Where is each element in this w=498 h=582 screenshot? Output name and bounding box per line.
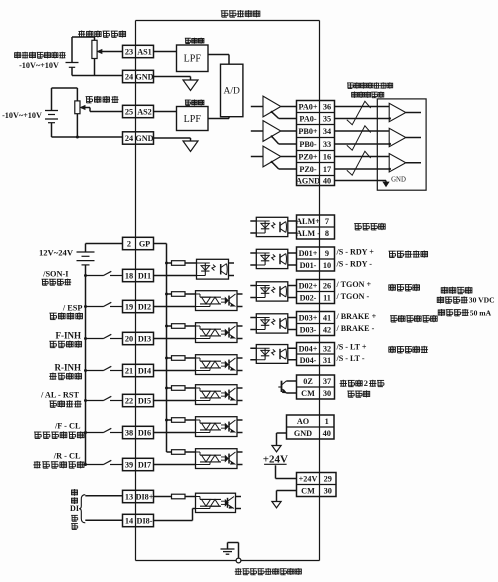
svg-text:/S - LT +: /S - LT + <box>336 343 367 352</box>
svg-text:/S - RDY +: /S - RDY + <box>336 247 375 256</box>
svg-text:D01+: D01+ <box>299 249 318 258</box>
svg-text:DI3: DI3 <box>138 335 151 344</box>
svg-text:-10V~+10V: -10V~+10V <box>19 61 59 70</box>
svg-text:2: 2 <box>127 240 131 249</box>
svg-text:41: 41 <box>323 314 331 323</box>
svg-text:25: 25 <box>125 108 133 117</box>
svg-text:42: 42 <box>323 326 331 335</box>
svg-text:/S - RDY -: /S - RDY - <box>336 259 373 268</box>
svg-text:D04-: D04- <box>300 356 317 365</box>
svg-text:/F - CL: /F - CL <box>54 422 81 431</box>
svg-text:37: 37 <box>323 377 331 386</box>
svg-text:GND: GND <box>135 134 153 143</box>
svg-text:10: 10 <box>323 261 331 270</box>
svg-text:2: 2 <box>364 379 368 388</box>
svg-text:LPF: LPF <box>184 114 202 125</box>
svg-text:0Z: 0Z <box>303 377 313 386</box>
svg-text:DI5: DI5 <box>138 397 151 406</box>
svg-text:39: 39 <box>125 461 133 470</box>
svg-text:34: 34 <box>323 127 331 136</box>
svg-text:7: 7 <box>325 217 329 226</box>
svg-text:40: 40 <box>323 429 331 438</box>
svg-text:/ ESP: / ESP <box>62 303 83 312</box>
svg-text:DI6: DI6 <box>138 429 151 438</box>
svg-text:GP: GP <box>139 240 150 249</box>
svg-text:DI7: DI7 <box>138 461 151 470</box>
svg-text:/ TGON +: / TGON + <box>336 280 372 289</box>
svg-text:24: 24 <box>125 134 133 143</box>
svg-text:D04+: D04+ <box>299 344 318 353</box>
svg-text:23: 23 <box>125 48 133 57</box>
svg-text:29: 29 <box>324 475 332 484</box>
svg-text:36: 36 <box>323 103 331 112</box>
svg-text:35: 35 <box>323 115 331 124</box>
svg-text:CM: CM <box>301 389 315 398</box>
svg-text:D01-: D01- <box>300 261 317 270</box>
svg-text:D03+: D03+ <box>299 314 318 323</box>
svg-text:DI: DI <box>70 504 79 513</box>
svg-text:/ TGON -: / TGON - <box>336 292 370 301</box>
svg-text:/ BRAKE -: / BRAKE - <box>336 324 375 333</box>
svg-text:21: 21 <box>125 367 133 376</box>
svg-text:GND: GND <box>294 429 312 438</box>
svg-text:PA0+: PA0+ <box>298 103 317 112</box>
svg-text:F-INH: F-INH <box>56 331 82 341</box>
svg-text:40: 40 <box>323 177 331 186</box>
svg-text:38: 38 <box>125 429 133 438</box>
svg-text:AS1: AS1 <box>137 48 152 57</box>
svg-text:8: 8 <box>325 229 329 238</box>
svg-text:GND: GND <box>135 73 153 82</box>
svg-text:ALM -: ALM - <box>296 229 320 238</box>
svg-text:AS2: AS2 <box>137 108 152 117</box>
svg-text:PZ0-: PZ0- <box>299 165 317 174</box>
svg-text:PB0+: PB0+ <box>298 127 318 136</box>
svg-text:18: 18 <box>125 272 133 281</box>
svg-text:14: 14 <box>125 517 133 526</box>
svg-text:20: 20 <box>125 335 133 344</box>
svg-text:24: 24 <box>125 73 133 82</box>
svg-text:32: 32 <box>323 344 331 353</box>
svg-text:/ BRAKE +: / BRAKE + <box>336 312 377 321</box>
svg-text:/ AL - RST: / AL - RST <box>40 390 80 399</box>
svg-text:/S - LT -: /S - LT - <box>336 354 365 363</box>
svg-text:GND: GND <box>391 177 406 184</box>
svg-text:DI8+: DI8+ <box>136 493 154 502</box>
svg-text:PA0-: PA0- <box>299 115 316 124</box>
svg-text:31: 31 <box>323 356 331 365</box>
svg-text:30: 30 <box>323 389 331 398</box>
svg-text:D02-: D02- <box>300 294 317 303</box>
svg-text:+24V: +24V <box>299 475 318 484</box>
svg-text:AO: AO <box>297 417 309 426</box>
svg-text:CM: CM <box>301 487 315 496</box>
svg-text:LPF: LPF <box>184 54 202 65</box>
svg-text:1: 1 <box>325 417 329 426</box>
svg-text:DI1: DI1 <box>138 272 151 281</box>
svg-text:50 mA: 50 mA <box>470 308 492 317</box>
svg-text:26: 26 <box>323 282 331 291</box>
svg-text:19: 19 <box>125 303 133 312</box>
svg-text:22: 22 <box>125 397 133 406</box>
svg-text:PB0-: PB0- <box>299 140 317 149</box>
svg-text:30: 30 <box>324 487 332 496</box>
svg-text:ALM+: ALM+ <box>296 217 320 226</box>
svg-text:/R - CL: /R - CL <box>53 452 81 461</box>
svg-text:30 VDC: 30 VDC <box>469 296 495 305</box>
svg-text:+24V: +24V <box>263 453 288 465</box>
svg-text:13: 13 <box>125 493 133 502</box>
svg-text:9: 9 <box>325 249 329 258</box>
svg-text:PZ0+: PZ0+ <box>298 153 318 162</box>
svg-text:DI8-: DI8- <box>137 517 153 526</box>
svg-text:-10V~+10V: -10V~+10V <box>2 111 42 120</box>
svg-text:DI4: DI4 <box>138 367 151 376</box>
svg-text:11: 11 <box>323 294 331 303</box>
svg-text:12V~24V: 12V~24V <box>39 248 74 258</box>
svg-text:17: 17 <box>323 165 331 174</box>
svg-text:R-INH: R-INH <box>55 363 82 373</box>
svg-text:D02+: D02+ <box>299 282 318 291</box>
svg-text:/SON-I: /SON-I <box>42 270 68 279</box>
svg-text:D03-: D03- <box>300 326 317 335</box>
svg-text:DI2: DI2 <box>138 303 151 312</box>
svg-text:AGND: AGND <box>296 177 320 186</box>
svg-text:16: 16 <box>323 153 331 162</box>
svg-text:33: 33 <box>323 140 331 149</box>
svg-text:A/D: A/D <box>224 87 241 97</box>
